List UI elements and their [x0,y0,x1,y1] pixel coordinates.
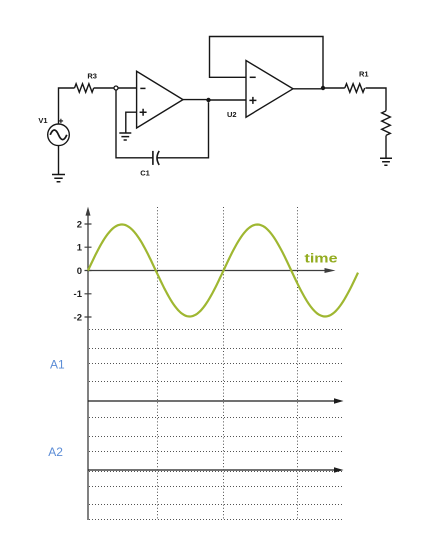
svg-text:1: 1 [77,243,83,254]
y tick labels [74,219,83,323]
svg-text:time: time [305,250,338,265]
svg-text:U2: U2 [227,110,237,119]
svg-text:-2: -2 [74,312,82,323]
signal A2 axis [88,469,336,471]
node B (U1 output junction) [206,98,210,102]
svg-text:A1: A1 [50,358,65,372]
svg-text:-1: -1 [74,289,83,300]
signal A1 axis [88,400,336,402]
grid vertical dotted lines [158,207,298,520]
node C (U2 output junction) [321,86,325,90]
wire (U2 feedback loop) [210,37,324,87]
resistor R2 (load) [382,111,391,136]
wire R3 to node [94,87,114,89]
wire V1 to ground [58,146,60,175]
plus (V1 polarity) [59,119,63,123]
x axis (time) [88,270,326,272]
svg-text:R3: R3 [87,72,97,81]
wire (feedback through C1, right) [158,102,209,158]
wire R1 to load resistor [366,88,387,111]
wire node to U1 inverting input [118,87,136,89]
wire to U2 non-inverting input [209,99,247,101]
wire U2 output [293,88,323,90]
capacitor C1 [153,151,159,165]
resistor R1 [345,84,365,93]
svg-text:V1: V1 [38,116,47,125]
ground (U1 + input) [119,133,131,140]
op-amp U2 [246,61,293,118]
wire U1 non-inverting input to ground [126,112,137,132]
svg-text:A2: A2 [48,445,63,459]
wire V1 top to R3 [59,88,75,124]
svg-text:0: 0 [77,266,82,277]
svg-text:2: 2 [77,219,82,230]
svg-text:R1: R1 [359,70,369,79]
voltage source V1 [48,124,70,146]
op-amp U1 [137,71,183,128]
grid horizontal dotted lines [89,330,342,520]
sine wave [88,225,358,317]
y tick marks [85,224,92,317]
svg-text:C1: C1 [140,169,150,178]
resistor R3 [75,84,94,93]
node A (input junction, open) [114,86,118,90]
wire load to ground [385,136,387,159]
wire (feedback through C1, left) [116,90,153,158]
wire node to R1 [323,87,345,89]
y axis [87,213,89,520]
ground (V1) [52,175,65,182]
wire U1 output [183,99,209,101]
ground (load) [380,158,392,165]
